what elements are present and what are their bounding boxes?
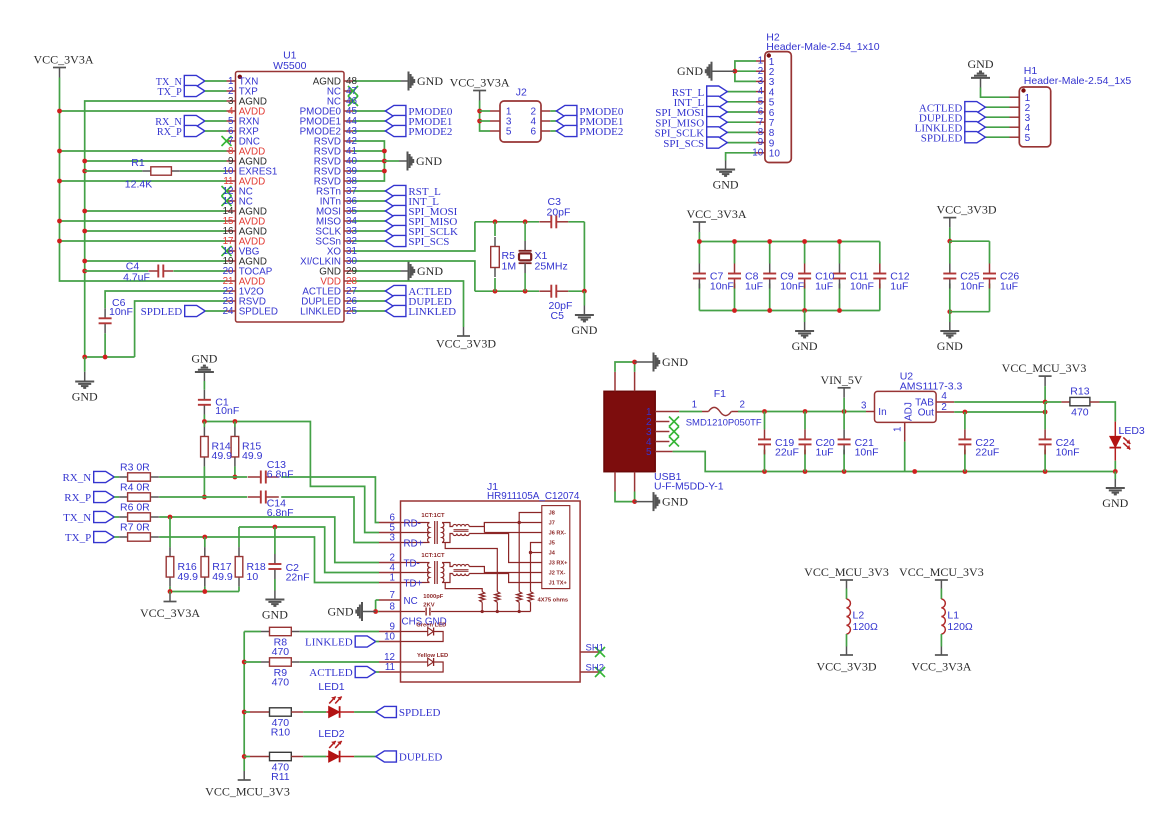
svg-text:470: 470 xyxy=(1071,407,1089,419)
svg-text:F1: F1 xyxy=(714,388,726,400)
svg-text:J3 RX+: J3 RX+ xyxy=(549,561,569,567)
svg-text:GND: GND xyxy=(1102,496,1128,510)
svg-text:25MHz: 25MHz xyxy=(535,261,568,273)
svg-text:2: 2 xyxy=(941,402,946,413)
svg-text:AMS1117-3.3: AMS1117-3.3 xyxy=(900,381,963,393)
svg-text:49.9: 49.9 xyxy=(242,450,263,462)
svg-text:1uF: 1uF xyxy=(815,281,833,293)
svg-text:VCC_MCU_3V3: VCC_MCU_3V3 xyxy=(1002,361,1087,375)
svg-text:470: 470 xyxy=(272,646,290,658)
svg-text:In: In xyxy=(878,407,886,418)
svg-text:R3 0R: R3 0R xyxy=(120,461,150,473)
svg-text:VCC_3V3D: VCC_3V3D xyxy=(816,660,876,674)
svg-text:VCC_3V3A: VCC_3V3A xyxy=(140,606,200,620)
svg-text:GND: GND xyxy=(72,390,98,404)
svg-text:10nF: 10nF xyxy=(215,405,239,417)
svg-text:10nF: 10nF xyxy=(780,281,804,293)
svg-text:SPDLED: SPDLED xyxy=(141,306,183,318)
svg-text:VCC_3V3A: VCC_3V3A xyxy=(686,207,746,221)
svg-text:LED3: LED3 xyxy=(1119,425,1145,437)
svg-text:5: 5 xyxy=(1025,133,1031,144)
svg-text:1uF: 1uF xyxy=(816,447,834,459)
svg-text:SH1: SH1 xyxy=(586,643,604,654)
svg-text:1000pF: 1000pF xyxy=(423,594,443,600)
svg-text:120Ω: 120Ω xyxy=(853,621,879,633)
svg-text:5: 5 xyxy=(506,127,512,138)
svg-text:GND: GND xyxy=(968,57,994,71)
svg-text:49.9: 49.9 xyxy=(212,571,233,583)
svg-text:1: 1 xyxy=(390,573,395,584)
svg-text:10nF: 10nF xyxy=(850,281,874,293)
svg-text:SPDLED: SPDLED xyxy=(239,307,278,318)
svg-text:Header-Male-2.54_1x10: Header-Male-2.54_1x10 xyxy=(766,41,879,53)
svg-text:VCC_3V3D: VCC_3V3D xyxy=(436,337,496,351)
svg-text:11: 11 xyxy=(385,662,395,673)
svg-text:HR911105A_C12074: HR911105A_C12074 xyxy=(487,491,580,502)
svg-text:PMODE2: PMODE2 xyxy=(408,126,452,138)
svg-text:10: 10 xyxy=(769,149,781,160)
svg-text:R13: R13 xyxy=(1070,385,1089,397)
svg-text:GND: GND xyxy=(417,264,443,278)
svg-text:49.9: 49.9 xyxy=(178,571,199,583)
svg-text:Green LED: Green LED xyxy=(416,623,446,629)
svg-text:1: 1 xyxy=(893,427,904,432)
svg-text:C5: C5 xyxy=(551,310,565,322)
svg-text:J1 TX+: J1 TX+ xyxy=(549,581,568,587)
svg-text:R1: R1 xyxy=(131,157,145,169)
svg-text:SPDLED: SPDLED xyxy=(921,132,963,144)
svg-text:L1: L1 xyxy=(947,610,959,622)
svg-text:GND: GND xyxy=(713,178,739,192)
svg-text:RD-: RD- xyxy=(404,519,421,530)
svg-text:RD+: RD+ xyxy=(404,539,424,550)
svg-text:49.9: 49.9 xyxy=(212,450,233,462)
svg-text:SH2: SH2 xyxy=(586,663,604,674)
svg-text:J4: J4 xyxy=(549,551,556,557)
svg-text:10nF: 10nF xyxy=(960,281,984,293)
svg-text:GND: GND xyxy=(571,323,597,337)
svg-text:6: 6 xyxy=(530,127,536,138)
svg-text:SPI_SCS: SPI_SCS xyxy=(408,236,449,248)
svg-text:VCC_MCU_3V3: VCC_MCU_3V3 xyxy=(804,565,889,579)
svg-text:L2: L2 xyxy=(853,610,865,622)
svg-text:1M: 1M xyxy=(502,261,517,273)
svg-text:20pF: 20pF xyxy=(547,207,571,219)
svg-text:R7 0R: R7 0R xyxy=(120,521,150,533)
svg-text:4: 4 xyxy=(941,391,947,402)
svg-text:R6 0R: R6 0R xyxy=(120,501,150,513)
svg-text:GND: GND xyxy=(662,355,688,369)
svg-text:RX_P: RX_P xyxy=(64,492,91,504)
svg-text:U-F-M5DD-Y-1: U-F-M5DD-Y-1 xyxy=(654,481,724,493)
svg-text:120Ω: 120Ω xyxy=(947,621,973,633)
svg-text:VCC_3V3A: VCC_3V3A xyxy=(911,660,971,674)
svg-text:GND: GND xyxy=(937,339,963,353)
svg-text:3: 3 xyxy=(861,401,867,412)
svg-text:2: 2 xyxy=(739,399,744,410)
svg-text:W5500: W5500 xyxy=(273,60,306,72)
svg-text:VCC_3V3A: VCC_3V3A xyxy=(450,76,510,90)
svg-text:LED2: LED2 xyxy=(318,728,344,740)
svg-text:VCC_MCU_3V3: VCC_MCU_3V3 xyxy=(899,565,984,579)
svg-text:24: 24 xyxy=(223,306,234,317)
svg-text:TD-: TD- xyxy=(404,559,420,570)
svg-text:SPI_SCS: SPI_SCS xyxy=(663,138,704,150)
svg-text:10nF: 10nF xyxy=(855,447,879,459)
svg-text:R10: R10 xyxy=(271,727,290,739)
svg-text:R11: R11 xyxy=(271,771,290,783)
svg-text:1CT:1CT: 1CT:1CT xyxy=(421,513,445,519)
svg-text:Out: Out xyxy=(918,407,934,418)
svg-text:NC: NC xyxy=(404,596,418,607)
svg-text:4.7uF: 4.7uF xyxy=(123,272,150,284)
svg-text:VCC_MCU_3V3: VCC_MCU_3V3 xyxy=(205,785,290,799)
svg-text:22uF: 22uF xyxy=(975,447,999,459)
svg-text:RX_P: RX_P xyxy=(157,127,182,138)
svg-text:RX_N: RX_N xyxy=(62,472,91,484)
svg-text:GND: GND xyxy=(662,495,688,509)
svg-text:ADJ: ADJ xyxy=(904,402,915,421)
svg-text:LINKLED: LINKLED xyxy=(300,307,341,318)
svg-text:VCC_3V3D: VCC_3V3D xyxy=(936,203,996,217)
svg-text:J6 RX-: J6 RX- xyxy=(549,531,567,537)
svg-text:TX_N: TX_N xyxy=(63,512,91,524)
svg-text:GND: GND xyxy=(328,605,354,619)
svg-text:Yellow LED: Yellow LED xyxy=(417,653,448,659)
svg-text:Header-Male-2.54_1x5: Header-Male-2.54_1x5 xyxy=(1024,75,1132,87)
svg-text:12.4K: 12.4K xyxy=(125,179,152,191)
svg-text:470: 470 xyxy=(272,677,290,689)
svg-text:SMD1210P050TF: SMD1210P050TF xyxy=(686,417,762,428)
svg-text:LINKLED: LINKLED xyxy=(305,637,353,649)
svg-text:DUPLED: DUPLED xyxy=(399,752,442,764)
svg-text:6.8nF: 6.8nF xyxy=(267,507,294,519)
svg-text:GND: GND xyxy=(792,339,818,353)
svg-text:GND: GND xyxy=(262,608,288,622)
svg-text:3: 3 xyxy=(390,533,396,544)
svg-text:TAB: TAB xyxy=(915,398,934,409)
svg-text:5: 5 xyxy=(646,447,652,458)
svg-text:10nF: 10nF xyxy=(1056,447,1080,459)
svg-text:J5: J5 xyxy=(549,541,555,547)
svg-text:10: 10 xyxy=(752,147,763,158)
svg-text:10: 10 xyxy=(247,571,259,583)
svg-text:TX_P: TX_P xyxy=(157,87,182,98)
svg-text:10nF: 10nF xyxy=(710,281,734,293)
svg-text:GND: GND xyxy=(417,74,443,88)
svg-text:10nF: 10nF xyxy=(109,306,133,318)
svg-text:4X75 ohms: 4X75 ohms xyxy=(538,598,569,604)
svg-text:ACTLED: ACTLED xyxy=(309,667,352,679)
svg-text:25: 25 xyxy=(346,306,357,317)
svg-text:6.8nF: 6.8nF xyxy=(267,469,294,481)
svg-text:1: 1 xyxy=(692,399,697,410)
svg-text:PMODE2: PMODE2 xyxy=(579,126,623,138)
svg-text:LINKLED: LINKLED xyxy=(408,306,456,318)
svg-text:1uF: 1uF xyxy=(1000,281,1018,293)
svg-text:J2 TX-: J2 TX- xyxy=(549,571,566,577)
svg-text:22uF: 22uF xyxy=(775,447,799,459)
svg-text:1uF: 1uF xyxy=(890,281,908,293)
svg-text:J7: J7 xyxy=(549,521,555,527)
svg-text:8: 8 xyxy=(390,602,396,613)
svg-text:GND: GND xyxy=(677,64,703,78)
svg-text:TX_P: TX_P xyxy=(65,532,91,544)
svg-text:GND: GND xyxy=(416,154,442,168)
svg-text:J8: J8 xyxy=(549,511,555,517)
svg-text:TD+: TD+ xyxy=(404,579,423,590)
svg-text:LED1: LED1 xyxy=(318,681,344,693)
svg-text:VCC_3V3A: VCC_3V3A xyxy=(33,53,93,67)
svg-text:10: 10 xyxy=(384,632,395,643)
svg-text:1CT:1CT: 1CT:1CT xyxy=(421,553,445,559)
svg-text:2KV: 2KV xyxy=(423,602,434,608)
svg-text:SPDLED: SPDLED xyxy=(399,707,441,719)
svg-text:1uF: 1uF xyxy=(745,281,763,293)
svg-text:GND: GND xyxy=(191,352,217,366)
svg-text:J2: J2 xyxy=(516,87,527,99)
svg-text:22nF: 22nF xyxy=(286,572,310,584)
svg-text:R4 0R: R4 0R xyxy=(120,481,150,493)
svg-text:7: 7 xyxy=(390,590,395,601)
svg-text:VIN_5V: VIN_5V xyxy=(821,373,863,387)
